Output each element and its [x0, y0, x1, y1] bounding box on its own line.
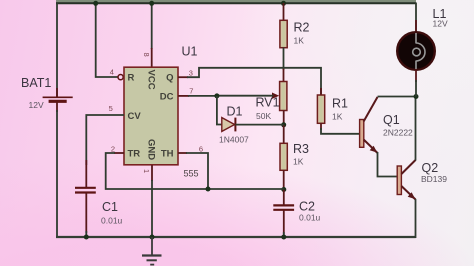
wire Q2 emitter to bottom rail	[415, 199, 417, 238]
op-amp U1 555 timer body	[124, 67, 178, 165]
transistor Q1 base bar	[360, 120, 364, 148]
junction dot bottom rail x=152	[150, 235, 155, 240]
wire reset branch vertical x=95.7	[96, 3, 118, 77]
junction dot lamp / Q1 / Q2 collectors	[414, 94, 419, 99]
svg-text:1N4007: 1N4007	[219, 135, 249, 145]
transistor Q1 emitter with arrow	[364, 140, 378, 154]
wire TH pin 6 down to node	[178, 153, 208, 189]
junction dot R3/C2/TR-TH node	[281, 187, 286, 192]
pin stub R2 top	[283, 3, 285, 21]
wire CV pin 5 to C1	[86, 115, 124, 165]
svg-text:BD139: BD139	[421, 174, 447, 184]
svg-text:TH: TH	[161, 149, 174, 160]
pin stub RV1 top	[283, 68, 285, 82]
junction dot top rail x=283.5	[281, 1, 286, 6]
wire lamp bottom to junction	[415, 80, 417, 97]
resistor R3	[280, 143, 287, 170]
svg-text:R1: R1	[332, 97, 348, 111]
junction dot top rail x=151.7	[149, 1, 154, 6]
svg-text:7: 7	[189, 86, 193, 95]
junction dot top rail x=95.7	[93, 1, 98, 6]
junction dot bottom rail x=86.3	[84, 235, 89, 240]
svg-text:555: 555	[184, 169, 199, 179]
svg-text:0.01u: 0.01u	[299, 213, 321, 223]
transistor Q2 emitter with arrow	[401, 186, 415, 200]
svg-text:50K: 50K	[256, 111, 271, 121]
svg-text:D1: D1	[227, 105, 243, 119]
pin bubble reset (active low)	[118, 75, 123, 80]
ground	[142, 237, 162, 265]
wire R2 bottom to RV1 top	[283, 48, 285, 71]
svg-text:2N2222: 2N2222	[383, 128, 413, 138]
wire Q1 collector to lamp node	[378, 96, 417, 98]
svg-text:Q: Q	[166, 73, 173, 84]
svg-text:12V: 12V	[29, 100, 44, 110]
svg-text:C2: C2	[299, 200, 315, 214]
wire R1 bottom to Q1 base	[321, 123, 360, 134]
svg-text:3: 3	[189, 68, 193, 77]
wire lamp top stub	[415, 3, 417, 34]
svg-text:8: 8	[142, 53, 151, 57]
svg-text:DC: DC	[160, 92, 174, 103]
wire top power rail	[56, 2, 416, 4]
transistor Q2 base bar	[397, 166, 401, 195]
resistor R2	[280, 20, 287, 47]
svg-text:1: 1	[142, 169, 151, 173]
diode D1	[217, 96, 284, 131]
svg-text:TR: TR	[128, 149, 141, 160]
svg-text:0.01u: 0.01u	[101, 216, 123, 226]
pin stub R3 top	[283, 125, 285, 144]
pin stub RV1 bottom	[283, 111, 285, 127]
svg-text:BAT1: BAT1	[21, 76, 51, 90]
lamp L1	[397, 20, 435, 82]
wire Q2 collector up to lamp node	[415, 97, 417, 161]
potentiometer RV1 body	[280, 82, 287, 111]
svg-text:6: 6	[199, 144, 203, 153]
wire left vertical from rail to battery	[56, 3, 58, 97]
svg-text:4: 4	[110, 67, 114, 76]
junction dot TH / TR-wire	[206, 187, 211, 192]
svg-text:5: 5	[109, 104, 113, 113]
pin stub VCC pin 8	[151, 48, 153, 68]
junction dot pin7 / D1	[214, 93, 219, 98]
svg-text:1K: 1K	[294, 36, 305, 46]
svg-text:Q1: Q1	[383, 113, 400, 127]
transistor Q1 collector	[364, 97, 378, 122]
wire Q1 emitter to Q2 base	[378, 152, 398, 177]
svg-text:CV: CV	[128, 111, 142, 122]
svg-text:C1: C1	[102, 200, 118, 214]
svg-text:GND: GND	[146, 139, 157, 160]
wire output pin 3 to R1	[178, 68, 321, 96]
wire bottom ground rail	[56, 236, 416, 238]
battery BAT1	[43, 88, 73, 112]
svg-text:2: 2	[111, 144, 115, 153]
pin stub R3 bottom	[283, 170, 285, 190]
wire TR pin 2 down and right	[106, 153, 284, 189]
svg-text:R3: R3	[293, 142, 309, 156]
junction dot RV1 bottom / D1 cathode / R3 top	[281, 122, 286, 127]
svg-text:Q2: Q2	[422, 161, 439, 175]
capacitor C2	[273, 190, 294, 238]
svg-text:U1: U1	[182, 45, 198, 59]
wire top rail highlight band	[56, 0, 416, 2]
wire battery negative down to bottom rail	[56, 110, 58, 238]
wire GND pin 1 to bottom rail	[151, 165, 153, 237]
svg-text:VCC: VCC	[146, 70, 157, 90]
svg-text:1K: 1K	[332, 112, 343, 122]
transistor Q2 collector	[401, 160, 415, 174]
svg-text:R2: R2	[294, 21, 310, 35]
capacitor C1	[75, 160, 96, 237]
wire VCC branch x=151.7	[151, 3, 153, 49]
svg-text:R: R	[128, 73, 135, 84]
svg-text:1K: 1K	[293, 157, 304, 167]
svg-text:12V: 12V	[433, 19, 448, 29]
svg-text:RV1: RV1	[256, 96, 280, 110]
potentiometer RV1 wiper arrowhead	[272, 93, 279, 99]
junction dot bottom rail x=283.8	[281, 235, 286, 240]
resistor R1	[317, 95, 324, 123]
wire DC pin 7 to RV1 wiper	[178, 95, 274, 97]
